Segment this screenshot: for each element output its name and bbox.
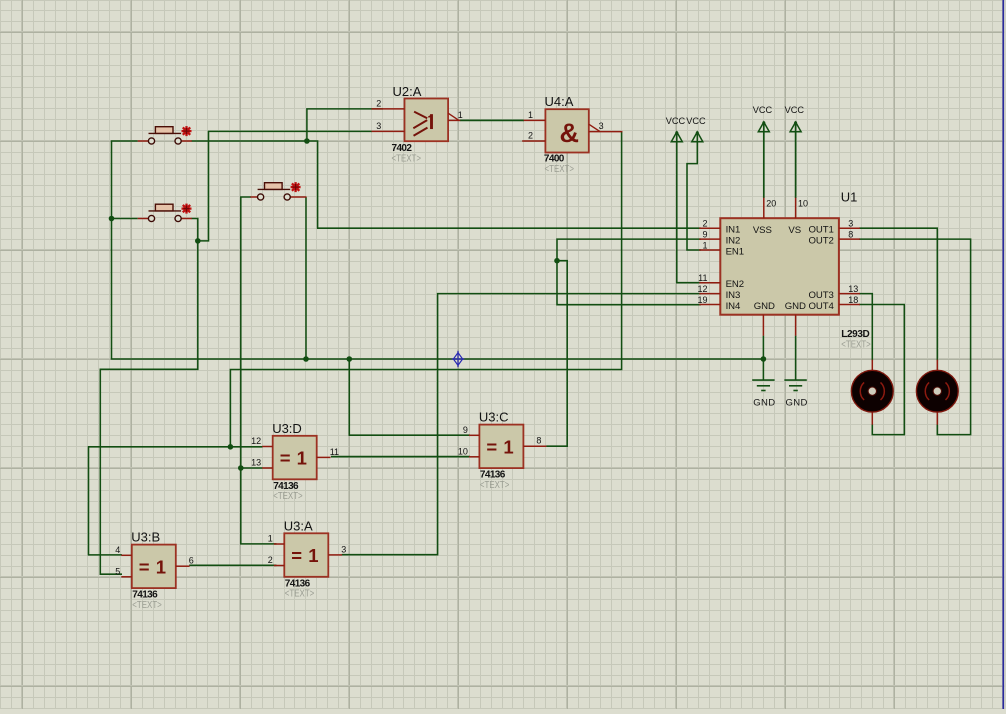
svg-text:<TEXT>: <TEXT> — [841, 339, 871, 351]
push button SW2 — [138, 204, 192, 222]
svg-text:IN3: IN3 — [726, 290, 741, 301]
svg-text:U3:A: U3:A — [284, 518, 313, 533]
xor-gate U3:B 74136 — [121, 545, 189, 589]
wire: net button1-right / U2:A pin2 / L293D IN1 — [192, 109, 701, 228]
svg-text:U1: U1 — [841, 190, 858, 205]
svg-text:2: 2 — [268, 555, 273, 565]
svg-text:1: 1 — [458, 110, 463, 120]
svg-text:IN2: IN2 — [726, 236, 741, 247]
U1 pin numbers — [697, 198, 858, 304]
junction: IN2/IN4 tie point — [554, 258, 560, 264]
svg-text:10: 10 — [458, 447, 468, 457]
junction: button1-right at U2 riser — [304, 138, 310, 144]
svg-text:20: 20 — [766, 198, 776, 208]
svg-text:= 1: = 1 — [280, 448, 308, 469]
svg-text:U4:A: U4:A — [545, 94, 574, 109]
svg-text:<TEXT>: <TEXT> — [273, 490, 303, 502]
U3:A pin numbers — [268, 534, 347, 566]
IC U1 L293D — [699, 198, 860, 336]
ground G2 — [784, 380, 807, 408]
wire: net button3-left / U3:D pin13 / U3:A pin1 — [241, 197, 277, 544]
svg-text:VCC: VCC — [666, 116, 686, 126]
power VCC mid-2 — [785, 105, 805, 132]
wire: VCC1 to L293D EN2 — [677, 133, 701, 283]
svg-text:12: 12 — [697, 284, 707, 294]
svg-text:VCC: VCC — [785, 105, 805, 115]
svg-text:3: 3 — [848, 219, 853, 229]
xor-gate U3:C 74136 — [469, 425, 547, 469]
svg-text:<TEXT>: <TEXT> — [392, 152, 422, 164]
svg-text:19: 19 — [697, 295, 707, 305]
node: sheet origin marker — [452, 351, 465, 367]
svg-text:12: 12 — [251, 436, 261, 446]
push button SW3 — [250, 182, 306, 200]
svg-text:3: 3 — [376, 121, 381, 131]
svg-text:= 1: = 1 — [139, 556, 167, 577]
wire: ground rail net (buttons left, button3 right, U3:C pin9, GND) — [112, 141, 764, 435]
wire: U2:A out to U4:A pin1 — [460, 119, 524, 121]
svg-text:5: 5 — [115, 567, 120, 577]
op-gate U4:A 7400 NAND — [522, 109, 622, 152]
svg-text:13: 13 — [251, 458, 261, 468]
wire: U3:B out to U3:A pin2 — [189, 564, 276, 566]
wire: net button2-right / U2:A pin3 / U3:B pin5 — [100, 131, 372, 574]
wire: U3:C out to L293D IN2 and IN4 — [546, 239, 701, 446]
svg-text:VS: VS — [788, 225, 801, 236]
svg-text:EN1: EN1 — [726, 247, 744, 258]
svg-text:U3:B: U3:B — [131, 530, 160, 545]
svg-text:GND: GND — [753, 397, 775, 408]
svg-text:9: 9 — [463, 425, 468, 435]
svg-text:<TEXT>: <TEXT> — [132, 599, 162, 611]
wire: OUT3 pin13 to motor1 top — [859, 294, 872, 361]
xor-gate U3:A 74136 — [274, 533, 342, 577]
svg-text:2: 2 — [528, 131, 533, 141]
svg-text:2: 2 — [376, 98, 381, 108]
svg-text:IN4: IN4 — [726, 301, 741, 312]
svg-text:<TEXT>: <TEXT> — [545, 163, 575, 175]
svg-text:6: 6 — [189, 556, 194, 566]
svg-text:3: 3 — [341, 544, 346, 554]
svg-text:3: 3 — [599, 121, 604, 131]
svg-text:8: 8 — [848, 229, 853, 239]
power VCC left-2 — [686, 116, 706, 142]
motor M1 — [851, 360, 893, 425]
svg-text:<TEXT>: <TEXT> — [285, 588, 315, 600]
wire: VCC4 to VS pin10 — [795, 123, 797, 198]
page border (right) — [1003, 0, 1006, 709]
svg-text:1: 1 — [528, 110, 533, 120]
op-gate U2:A 7402 NOR — [372, 99, 461, 142]
svg-text:GND: GND — [785, 397, 807, 408]
wire: U4:A out to U3:D pin12 and U3:B pin4 — [89, 132, 622, 555]
svg-text:13: 13 — [848, 284, 858, 294]
power VCC left-1 — [666, 116, 686, 142]
U3:D pin numbers — [251, 436, 339, 468]
junction: button2-right net branch — [195, 238, 201, 244]
svg-text:VCC: VCC — [753, 105, 773, 115]
wire: L293D GND pins to ground symbols — [763, 336, 795, 381]
svg-text:EN2: EN2 — [726, 279, 744, 290]
svg-text:1: 1 — [702, 240, 707, 250]
svg-text:VSS: VSS — [753, 225, 772, 236]
svg-text:2: 2 — [702, 219, 707, 229]
junction: button3 right on ground rail — [303, 356, 309, 362]
wire: OUT1 pin3 to motor2 top — [859, 228, 937, 360]
junction: U4 out net at U3:D pin12 — [228, 444, 234, 450]
junction: button2 left on left rail — [109, 216, 115, 222]
svg-text:IN1: IN1 — [726, 225, 741, 236]
wire: OUT2 pin8 to motor2 bottom — [859, 239, 971, 435]
svg-text:GND: GND — [785, 301, 806, 312]
U3:C pin numbers — [458, 425, 542, 457]
U4:A pin numbers — [528, 110, 604, 141]
svg-text:<TEXT>: <TEXT> — [480, 479, 510, 491]
svg-text:4: 4 — [115, 545, 120, 555]
svg-text:10: 10 — [798, 198, 808, 208]
wire: OUT4 pin18 to motor1 bottom — [859, 305, 904, 435]
ground G1 — [752, 380, 775, 408]
svg-text:OUT4: OUT4 — [809, 301, 835, 312]
junction: U3:C pin9 branch on ground rail — [347, 356, 353, 362]
svg-text:U2:A: U2:A — [393, 84, 422, 99]
wire: U3:D out to U3:C pin10 — [331, 456, 470, 458]
wire: VCC2 to L293D EN1 — [687, 133, 701, 250]
svg-text:8: 8 — [536, 436, 541, 446]
svg-text:OUT3: OUT3 — [809, 290, 834, 301]
wire: U3:A out to L293D IN3 — [342, 294, 701, 555]
svg-text:11: 11 — [330, 447, 339, 457]
power VCC mid-1 — [753, 105, 773, 132]
svg-text:11: 11 — [698, 273, 707, 283]
U3:B pin numbers — [115, 545, 194, 577]
junction: ground rail at GND drop — [761, 356, 767, 362]
svg-text:1: 1 — [268, 534, 273, 544]
wire: VCC3 to VSS pin20 — [763, 123, 765, 198]
svg-text:OUT1: OUT1 — [809, 225, 834, 236]
svg-text:GND: GND — [754, 301, 775, 312]
svg-text:&: & — [560, 118, 580, 148]
svg-text:= 1: = 1 — [486, 436, 514, 457]
svg-text:18: 18 — [848, 295, 858, 305]
svg-text:VCC: VCC — [686, 116, 706, 126]
svg-text:U3:D: U3:D — [272, 421, 302, 436]
U2:A pin numbers — [376, 98, 463, 130]
svg-text:OUT2: OUT2 — [809, 236, 834, 247]
motor M2 — [916, 360, 958, 425]
U1 pin name labels — [726, 225, 835, 313]
push button SW1 — [138, 126, 192, 144]
svg-text:= 1: = 1 — [291, 545, 319, 566]
svg-text:9: 9 — [702, 229, 707, 239]
junction: U3:D pin13 branch — [238, 465, 244, 471]
xor-gate U3:D 74136 — [262, 436, 330, 480]
svg-text:U3:C: U3:C — [479, 410, 509, 425]
